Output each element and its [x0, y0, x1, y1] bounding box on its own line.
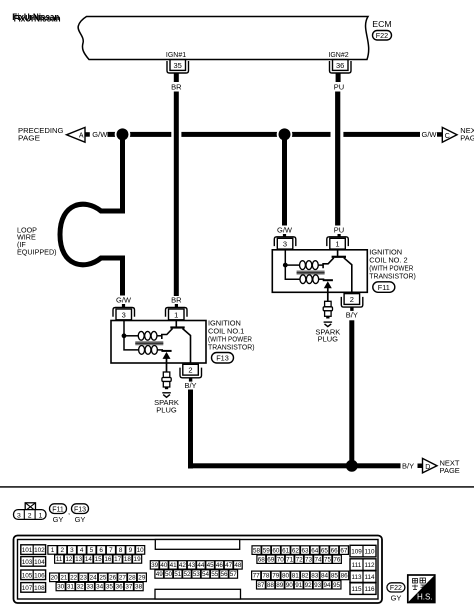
svg-text:D: D: [425, 464, 430, 471]
svg-text:58: 58: [253, 547, 261, 554]
svg-text:102: 102: [34, 547, 45, 554]
svg-text:52: 52: [183, 571, 191, 578]
svg-text:93: 93: [314, 582, 322, 589]
svg-text:51: 51: [174, 571, 182, 578]
svg-text:20: 20: [51, 575, 59, 582]
svg-text:40: 40: [160, 562, 168, 569]
svg-text:56: 56: [220, 571, 228, 578]
svg-text:G/W: G/W: [277, 226, 293, 235]
svg-text:35: 35: [106, 584, 114, 591]
svg-text:26: 26: [109, 575, 117, 582]
svg-text:ECM: ECM: [372, 19, 391, 29]
svg-text:50: 50: [165, 571, 173, 578]
svg-text:49: 49: [156, 571, 164, 578]
svg-text:91: 91: [295, 582, 303, 589]
svg-text:F13: F13: [216, 354, 229, 363]
svg-text:110: 110: [364, 549, 375, 556]
svg-text:29: 29: [138, 575, 146, 582]
svg-text:F22: F22: [376, 31, 388, 40]
svg-text:81: 81: [292, 573, 300, 580]
svg-text:8: 8: [119, 547, 123, 554]
svg-text:87: 87: [257, 582, 265, 589]
svg-text:42: 42: [179, 562, 187, 569]
svg-text:64: 64: [311, 547, 319, 554]
svg-text:107: 107: [22, 585, 33, 592]
svg-text:PU: PU: [334, 226, 344, 235]
svg-text:19: 19: [134, 556, 142, 563]
svg-text:55: 55: [211, 571, 219, 578]
svg-text:69: 69: [267, 556, 275, 563]
svg-text:C: C: [445, 133, 450, 140]
svg-text:GY: GY: [391, 594, 402, 603]
svg-text:H.S.: H.S.: [417, 593, 433, 602]
svg-text:88: 88: [267, 582, 275, 589]
svg-text:54: 54: [202, 571, 210, 578]
svg-text:41: 41: [170, 562, 178, 569]
svg-text:PU: PU: [334, 83, 344, 92]
svg-text:57: 57: [230, 571, 238, 578]
svg-text:85: 85: [331, 573, 339, 580]
svg-text:84: 84: [321, 573, 329, 580]
svg-text:PAGE: PAGE: [460, 133, 474, 142]
svg-text:106: 106: [34, 572, 45, 579]
svg-text:63: 63: [302, 547, 310, 554]
svg-text:46: 46: [216, 562, 224, 569]
svg-text:68: 68: [258, 556, 266, 563]
svg-text:94: 94: [324, 582, 332, 589]
svg-text:62: 62: [292, 547, 300, 554]
svg-text:1: 1: [335, 240, 339, 249]
svg-text:36: 36: [116, 584, 124, 591]
svg-text:27: 27: [119, 575, 127, 582]
svg-text:32: 32: [77, 584, 85, 591]
svg-text:105: 105: [22, 572, 33, 579]
svg-text:114: 114: [364, 574, 375, 581]
svg-text:GY: GY: [53, 515, 64, 524]
svg-text:48: 48: [234, 562, 242, 569]
svg-text:35: 35: [174, 61, 182, 70]
svg-text:1: 1: [39, 512, 43, 519]
svg-text:28: 28: [129, 575, 137, 582]
svg-text:12: 12: [65, 556, 73, 563]
svg-text:2: 2: [60, 547, 64, 554]
svg-text:PAGE: PAGE: [440, 466, 460, 475]
svg-text:GY: GY: [75, 515, 86, 524]
svg-text:17: 17: [114, 556, 122, 563]
svg-text:PLUG: PLUG: [156, 405, 177, 414]
svg-text:6: 6: [99, 547, 103, 554]
svg-text:15: 15: [95, 556, 103, 563]
svg-text:71: 71: [286, 556, 294, 563]
svg-text:BR: BR: [171, 83, 182, 92]
svg-text:43: 43: [188, 562, 196, 569]
svg-text:2: 2: [28, 512, 32, 519]
svg-text:92: 92: [305, 582, 313, 589]
svg-text:113: 113: [351, 574, 362, 581]
svg-text:111: 111: [352, 562, 362, 569]
svg-text:116: 116: [364, 586, 375, 593]
svg-text:7: 7: [109, 547, 113, 554]
svg-text:IGN#2: IGN#2: [328, 52, 348, 59]
svg-text:F22: F22: [390, 585, 402, 592]
svg-text:1: 1: [51, 547, 55, 554]
svg-text:PLUG: PLUG: [318, 335, 339, 344]
svg-text:75: 75: [324, 556, 332, 563]
svg-text:22: 22: [70, 575, 78, 582]
svg-text:23: 23: [80, 575, 88, 582]
svg-text:14: 14: [85, 556, 93, 563]
svg-text:61: 61: [282, 547, 290, 554]
svg-text:A: A: [79, 133, 84, 140]
svg-text:66: 66: [331, 547, 339, 554]
svg-text:4: 4: [80, 547, 84, 554]
svg-text:B/Y: B/Y: [184, 381, 196, 390]
svg-text:EQUIPPED): EQUIPPED): [17, 247, 57, 256]
svg-text:3: 3: [17, 512, 21, 519]
svg-text:FixUrNissan: FixUrNissan: [12, 12, 59, 22]
svg-text:112: 112: [364, 562, 375, 569]
svg-text:,: ,: [68, 507, 70, 516]
svg-text:72: 72: [296, 556, 304, 563]
svg-text:60: 60: [272, 547, 280, 554]
svg-text:82: 82: [301, 573, 309, 580]
svg-text:BR: BR: [171, 296, 182, 305]
svg-text:31: 31: [67, 584, 75, 591]
svg-text:33: 33: [86, 584, 94, 591]
svg-text:77: 77: [253, 573, 261, 580]
svg-text:F13: F13: [74, 506, 86, 513]
svg-text:95: 95: [333, 582, 341, 589]
svg-text:78: 78: [262, 573, 270, 580]
svg-text:89: 89: [276, 582, 284, 589]
svg-text:34: 34: [96, 584, 104, 591]
svg-text:2: 2: [350, 295, 354, 304]
svg-text:10: 10: [137, 547, 145, 554]
svg-text:G/W: G/W: [92, 130, 108, 139]
svg-text:13: 13: [75, 556, 83, 563]
svg-text:47: 47: [225, 562, 233, 569]
svg-text:1: 1: [174, 310, 178, 319]
svg-text:70: 70: [277, 556, 285, 563]
svg-text:24: 24: [90, 575, 98, 582]
svg-text:38: 38: [135, 584, 143, 591]
svg-text:109: 109: [351, 549, 362, 556]
svg-text:30: 30: [57, 584, 65, 591]
svg-text:11: 11: [56, 556, 63, 563]
svg-text:37: 37: [125, 584, 133, 591]
svg-text:TRANSISTOR): TRANSISTOR): [208, 342, 255, 351]
svg-text:59: 59: [263, 547, 271, 554]
svg-text:104: 104: [34, 559, 45, 566]
svg-text:103: 103: [22, 559, 33, 566]
svg-text:76: 76: [333, 556, 341, 563]
svg-text:115: 115: [351, 586, 362, 593]
svg-text:TRANSISTOR): TRANSISTOR): [369, 272, 416, 281]
svg-text:16: 16: [104, 556, 112, 563]
svg-text:B/Y: B/Y: [402, 462, 414, 471]
svg-text:74: 74: [314, 556, 322, 563]
svg-text:101: 101: [22, 547, 33, 554]
svg-text:86: 86: [341, 573, 349, 580]
svg-text:IGN#1: IGN#1: [166, 52, 186, 59]
svg-text:79: 79: [272, 573, 280, 580]
svg-text:80: 80: [282, 573, 290, 580]
svg-text:39: 39: [151, 562, 159, 569]
svg-text:73: 73: [305, 556, 313, 563]
svg-text:5: 5: [90, 547, 94, 554]
svg-text:67: 67: [340, 547, 348, 554]
svg-text:2: 2: [188, 366, 192, 375]
svg-text:B/Y: B/Y: [346, 310, 358, 319]
svg-text:53: 53: [193, 571, 201, 578]
svg-text:25: 25: [99, 575, 107, 582]
svg-text:18: 18: [124, 556, 132, 563]
svg-text:9: 9: [129, 547, 133, 554]
svg-text:65: 65: [321, 547, 329, 554]
svg-text:83: 83: [311, 573, 319, 580]
svg-text:21: 21: [60, 575, 68, 582]
svg-text:3: 3: [122, 310, 126, 319]
svg-text:3: 3: [70, 547, 74, 554]
svg-text:45: 45: [207, 562, 215, 569]
svg-text:G/W: G/W: [422, 130, 438, 139]
svg-text:PAGE: PAGE: [18, 133, 40, 142]
svg-text:90: 90: [286, 582, 294, 589]
svg-text:3: 3: [283, 240, 287, 249]
svg-text:44: 44: [197, 562, 205, 569]
svg-text:108: 108: [34, 585, 45, 592]
svg-text:36: 36: [336, 61, 344, 70]
svg-text:F11: F11: [378, 283, 390, 292]
svg-text:G/W: G/W: [116, 296, 132, 305]
svg-text:F11: F11: [52, 506, 64, 513]
